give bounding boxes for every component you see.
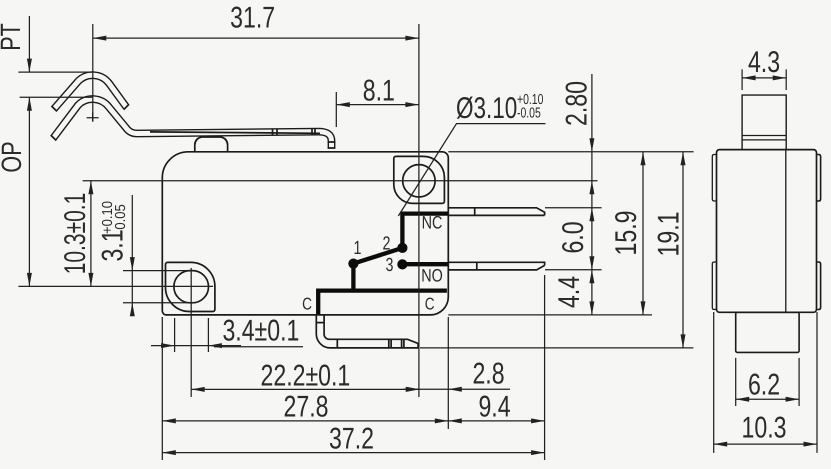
dimension 22.2 +-0.1 xyxy=(191,360,419,393)
label dia 3.10 with leader xyxy=(398,92,545,216)
underline of 3.4 dimension (not-to-scale mark) xyxy=(214,346,303,348)
dimension 9.4 xyxy=(448,391,544,424)
svg-text:6.2: 6.2 xyxy=(748,369,780,402)
svg-text:37.2: 37.2 xyxy=(329,423,374,456)
dimension 10.3 +-0.1 (left) xyxy=(59,181,93,287)
svg-text:3: 3 xyxy=(386,255,394,276)
dimension 10.3 (side view) xyxy=(714,312,817,453)
side button xyxy=(742,95,786,150)
svg-text:4.4: 4.4 xyxy=(553,276,586,308)
dimension 8.1 xyxy=(336,74,419,127)
OP dimension xyxy=(0,97,32,286)
svg-text:3.4±0.1: 3.4±0.1 xyxy=(222,315,299,348)
BL hole v-centerline xyxy=(190,268,192,397)
lever doubled edge line xyxy=(150,132,320,133)
svg-text:9.4: 9.4 xyxy=(478,391,510,424)
svg-text:1: 1 xyxy=(354,238,362,259)
C common terminal bent lead below body xyxy=(316,315,418,348)
svg-text:2.8: 2.8 xyxy=(472,358,504,391)
extension NC prong top xyxy=(545,207,602,209)
top-right mounting boss xyxy=(394,156,445,203)
svg-text:27.8: 27.8 xyxy=(284,391,329,424)
hole centerline vertical (top-right) xyxy=(418,24,420,397)
lever tick marks xyxy=(273,129,316,136)
svg-text:15.9: 15.9 xyxy=(610,211,643,256)
right side view xyxy=(712,95,820,352)
node 2 dot xyxy=(397,243,407,253)
NC terminal prong xyxy=(448,208,544,216)
svg-text:OP: OP xyxy=(0,141,27,172)
dimension 2.80 / 6.0 / 4.4 spine xyxy=(553,74,594,315)
svg-text:PT: PT xyxy=(0,23,26,51)
extension NO prong bottom xyxy=(545,269,602,271)
svg-text:NO: NO xyxy=(421,266,443,286)
svg-text:19.1: 19.1 xyxy=(653,212,686,257)
bottom-left slotted hole xyxy=(174,271,209,303)
bottom extension lines xyxy=(161,317,163,460)
svg-text:2.80: 2.80 xyxy=(560,81,593,126)
top-right mounting hole xyxy=(403,165,435,197)
lever pivot cross mark xyxy=(87,112,99,121)
OP reference line / BL hole h-centerline xyxy=(18,285,213,287)
dimension 27.8 xyxy=(162,391,448,424)
switch body outline xyxy=(162,152,448,315)
svg-text:31.7: 31.7 xyxy=(230,2,275,35)
svg-text:-0.05: -0.05 xyxy=(113,204,129,234)
parting line xyxy=(785,150,787,313)
operating hump line B xyxy=(20,96,93,98)
lever operating-position strip (lower, full lever) xyxy=(51,99,336,148)
svg-text:2: 2 xyxy=(383,234,391,255)
svg-text:22.2±0.1: 22.2±0.1 xyxy=(261,360,351,393)
svg-text:4.3: 4.3 xyxy=(748,46,780,79)
dimension 2.8 xyxy=(403,358,510,392)
svg-text:6.0: 6.0 xyxy=(557,221,590,253)
svg-text:NC: NC xyxy=(422,213,443,233)
svg-text:Ø3.10: Ø3.10 xyxy=(456,92,517,125)
free strip end caps xyxy=(51,104,129,111)
dimension 6.2 (side view) xyxy=(736,358,799,406)
extension line lead bottom right xyxy=(420,347,693,349)
free position line A xyxy=(18,71,93,73)
PT dimension xyxy=(0,16,32,72)
schematic: NC branch thick line xyxy=(402,214,447,250)
dimension 3.1 tol (left) xyxy=(97,195,197,316)
svg-text:10.3±0.1: 10.3±0.1 xyxy=(59,193,92,275)
svg-text:-0.05: -0.05 xyxy=(517,106,541,122)
svg-text:C: C xyxy=(302,294,312,313)
extension line body top right xyxy=(448,151,693,153)
node 3 dot xyxy=(397,259,407,269)
side terminal block xyxy=(736,312,799,352)
lever tip end cap xyxy=(328,142,336,148)
side tabs xyxy=(712,155,716,202)
dimension 19.1 xyxy=(653,152,686,348)
svg-text:C: C xyxy=(425,294,435,313)
side body xyxy=(717,150,817,313)
schematic: C bus thick line xyxy=(318,291,447,314)
svg-text:10.3: 10.3 xyxy=(742,412,787,445)
lever free-position strip (upper) xyxy=(51,75,129,111)
schematic: node 1 drop to C bus xyxy=(351,264,355,292)
dimension 31.7 xyxy=(93,2,419,122)
dimension 3.4 +-0.1 xyxy=(151,315,299,353)
plunger button on body top xyxy=(195,137,228,152)
bottom-left mounting boss xyxy=(166,262,215,311)
schematic: common blade 1-2 xyxy=(353,248,402,264)
dimension 4.3 (side view) xyxy=(742,46,786,90)
op strip tail end cap xyxy=(51,135,57,140)
hole centerline horizontal y=180.8 xyxy=(83,180,598,182)
dimension 15.9 xyxy=(610,152,646,315)
schematic: NO branch thick line xyxy=(400,262,448,266)
node 1 dot xyxy=(348,259,358,269)
extension line body bottom right xyxy=(448,314,652,316)
dimension 37.2 xyxy=(162,423,544,456)
NO terminal prong xyxy=(448,262,544,270)
svg-text:8.1: 8.1 xyxy=(363,74,395,107)
